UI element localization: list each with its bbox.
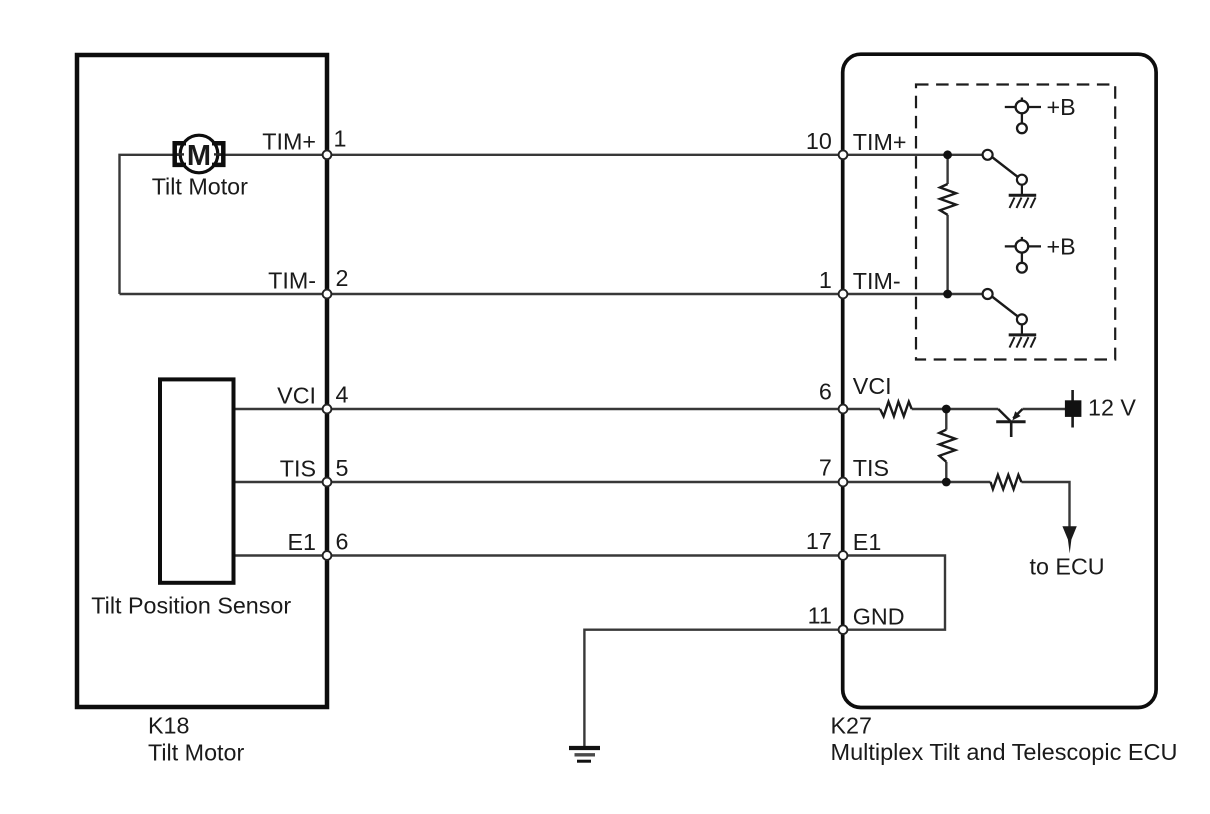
pin K18-2 <box>323 290 332 299</box>
junction node TIS <box>942 478 951 487</box>
transistor Q1 <box>996 409 1025 437</box>
arrow to ECU <box>1062 526 1076 553</box>
svg-text:6: 6 <box>819 379 832 405</box>
wire VCI net <box>234 408 881 410</box>
svg-text:1: 1 <box>334 126 347 152</box>
svg-text:17: 17 <box>806 528 832 554</box>
junction node VCI <box>942 405 951 414</box>
pin K27-10 <box>839 150 848 159</box>
svg-text:6: 6 <box>336 529 349 555</box>
svg-text:Tilt Motor: Tilt Motor <box>148 739 244 765</box>
resistor R1 (relay coil side) vertical <box>940 184 956 215</box>
wire relay resistor vertical <box>946 155 948 184</box>
svg-text:4: 4 <box>336 382 349 408</box>
svg-text:7: 7 <box>819 454 832 480</box>
svg-text:5: 5 <box>336 455 349 481</box>
pin K18-1 <box>323 150 332 159</box>
svg-text:+B: +B <box>1047 233 1076 259</box>
pin K18-6 <box>323 551 332 560</box>
svg-text:TIM+: TIM+ <box>853 129 907 155</box>
ground chassis (SW2) <box>1009 335 1036 348</box>
svg-text:GND: GND <box>853 604 905 630</box>
svg-text:K27: K27 <box>831 712 872 738</box>
svg-text:TIS: TIS <box>853 455 889 481</box>
svg-text:to ECU: to ECU <box>1030 554 1105 580</box>
battery 12 V symbol <box>1065 390 1082 428</box>
svg-text:VCI: VCI <box>277 383 316 409</box>
ground chassis (SW1) <box>1009 195 1036 208</box>
wire E1 net <box>234 554 844 556</box>
svg-text:Tilt Motor: Tilt Motor <box>152 174 248 200</box>
sensor box Tilt Position Sensor <box>160 379 234 582</box>
pin K27-11 <box>839 625 848 634</box>
svg-text:12 V: 12 V <box>1088 394 1136 420</box>
wire TIM+ net <box>120 155 987 294</box>
pin K18-5 <box>323 478 332 487</box>
pin K27-6 <box>839 405 848 414</box>
svg-text:TIS: TIS <box>280 456 316 482</box>
svg-text:2: 2 <box>336 265 349 291</box>
pin K18-4 <box>323 405 332 414</box>
svg-text:TIM+: TIM+ <box>262 128 316 154</box>
svg-text:K18: K18 <box>148 712 189 738</box>
svg-text:+B: +B <box>1047 94 1076 120</box>
pin K27-1 <box>839 290 848 299</box>
relay block dashed box <box>916 85 1115 360</box>
motor M1 Tilt Motor <box>174 135 224 173</box>
+B power symbol lower <box>1005 237 1041 273</box>
ground G1 (bottom) <box>569 748 600 761</box>
switch SW1 (TIM+) <box>983 150 1027 195</box>
svg-text:1: 1 <box>819 267 832 293</box>
svg-text:Multiplex Tilt and Telescopic: Multiplex Tilt and Telescopic ECU <box>831 739 1178 765</box>
resistor R3 (VCI-TIS divider) vertical <box>939 430 955 462</box>
connector K27 ECU outline <box>843 54 1156 707</box>
junction node TIM+ <box>943 150 952 159</box>
+B power symbol upper <box>1005 98 1041 134</box>
svg-text:TIM-: TIM- <box>853 268 901 294</box>
svg-text:M: M <box>187 140 211 172</box>
svg-text:E1: E1 <box>853 529 882 555</box>
svg-text:VCI: VCI <box>853 373 892 399</box>
pin K27-7 <box>839 478 848 487</box>
svg-text:TIM-: TIM- <box>268 268 316 294</box>
wire TIM- net <box>120 293 987 295</box>
resistor R4 (TIS series) horizontal <box>991 475 1022 489</box>
junction node TIM- <box>943 290 952 299</box>
switch SW2 (TIM-) <box>983 289 1027 335</box>
wire VCI-TIS resistor vertical <box>945 409 947 430</box>
wire GND net <box>584 630 843 747</box>
pin K27-17 <box>839 551 848 560</box>
svg-text:E1: E1 <box>288 529 317 555</box>
svg-text:Tilt Position Sensor: Tilt Position Sensor <box>91 592 291 618</box>
svg-text:11: 11 <box>808 603 832 629</box>
resistor R2 (VCI series) horizontal <box>880 402 912 417</box>
wire TIS net <box>234 481 991 483</box>
connector K18 outline <box>77 55 327 707</box>
svg-text:10: 10 <box>806 128 832 154</box>
